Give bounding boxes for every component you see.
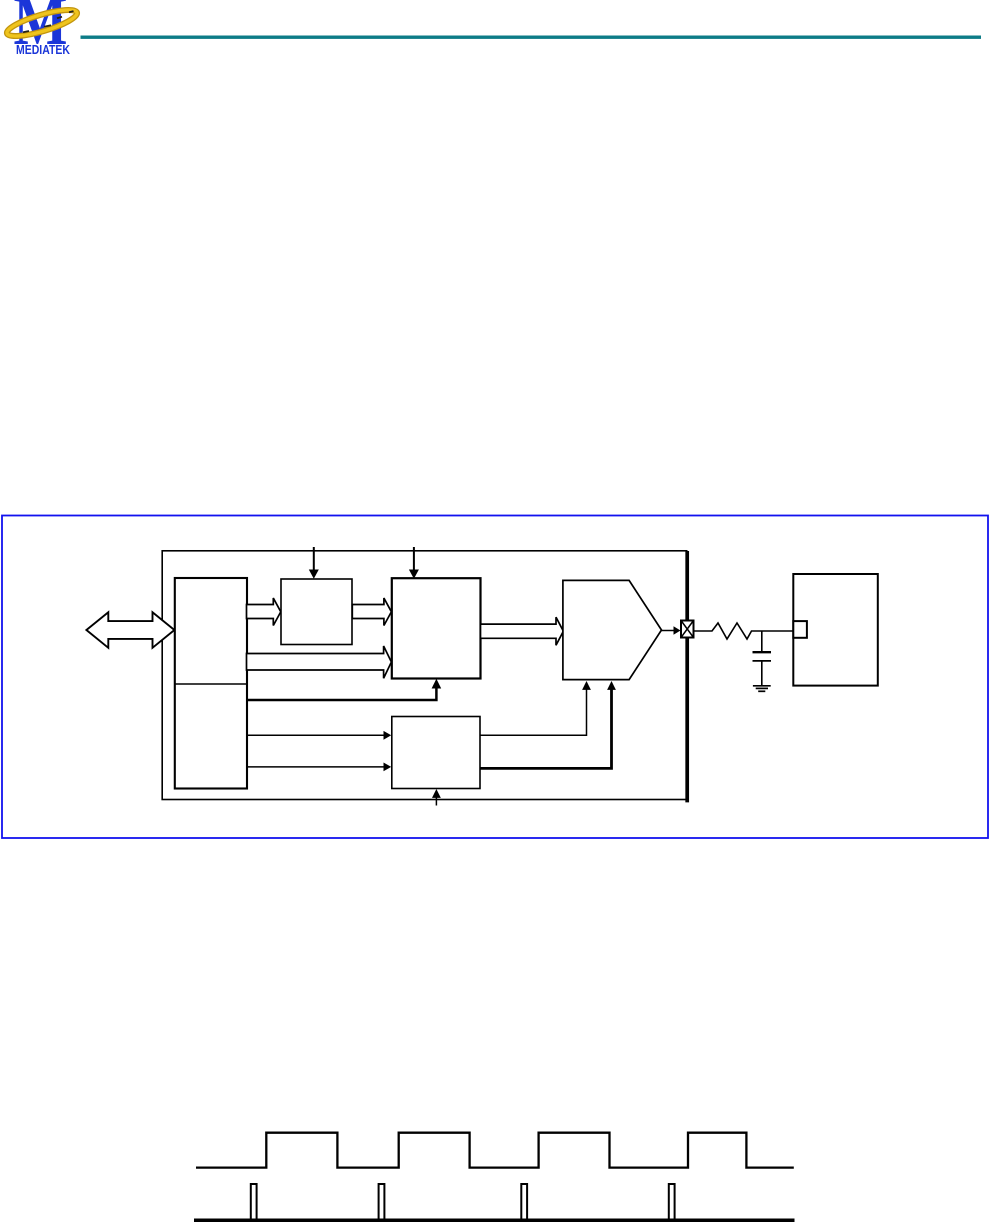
chip boundary (outer rectangle) xyxy=(162,551,687,800)
bus interface bidirectional block arrow xyxy=(86,612,174,648)
output mux driver (pentagon) xyxy=(563,580,662,679)
down arrow: clock into prescaler xyxy=(309,547,319,579)
capacitor C shunt xyxy=(753,631,772,686)
wire arrow: mux to pad xyxy=(662,626,681,634)
wire arrow: registers to comparator (upper) xyxy=(247,731,392,740)
wire: comparator to mux (left vertical) xyxy=(480,681,591,735)
buzzer load box (right) xyxy=(793,574,878,686)
MediaTek logo: gold orbit ring xyxy=(5,5,80,41)
register block divider xyxy=(175,683,247,685)
block arrow: counter to output mux xyxy=(481,617,564,645)
block arrow: prescaler to counter xyxy=(352,598,391,626)
counter box (large) xyxy=(392,578,481,678)
block arrow: registers to counter xyxy=(247,646,392,678)
wire arrow: registers to comparator (lower) xyxy=(247,763,392,772)
header teal rule xyxy=(81,36,982,39)
resistor R series xyxy=(694,623,794,639)
up arrow into comparator from below xyxy=(432,789,441,806)
waveform: reload pulse train baseline xyxy=(194,1218,795,1222)
ground xyxy=(753,686,771,692)
waveform: PWM output square wave xyxy=(196,1133,794,1168)
down arrow: clock into counter xyxy=(409,547,419,579)
wire: registers to counter bottom (thick L with up arrow) xyxy=(247,679,442,700)
reload pulse 4 xyxy=(669,1184,675,1220)
reload pulse 3 xyxy=(521,1184,527,1220)
prescaler box (top small) xyxy=(281,579,352,645)
chip boundary thick right edge xyxy=(685,551,689,802)
block arrow: registers to prescaler xyxy=(247,598,281,626)
MediaTek logo: ring shadow dashes xyxy=(23,11,74,32)
register block (left) xyxy=(175,578,247,789)
reload pulse 2 xyxy=(379,1184,385,1220)
svg-text:MEDIATEK: MEDIATEK xyxy=(16,42,70,57)
output pad (crossed square) xyxy=(681,621,694,638)
buzzer input pin square xyxy=(793,621,807,638)
comparator box (bottom) xyxy=(392,717,480,789)
wire: comparator to mux (right vertical thick) xyxy=(480,681,616,768)
figure blue frame xyxy=(2,516,988,839)
reload pulse 1 xyxy=(251,1184,257,1220)
